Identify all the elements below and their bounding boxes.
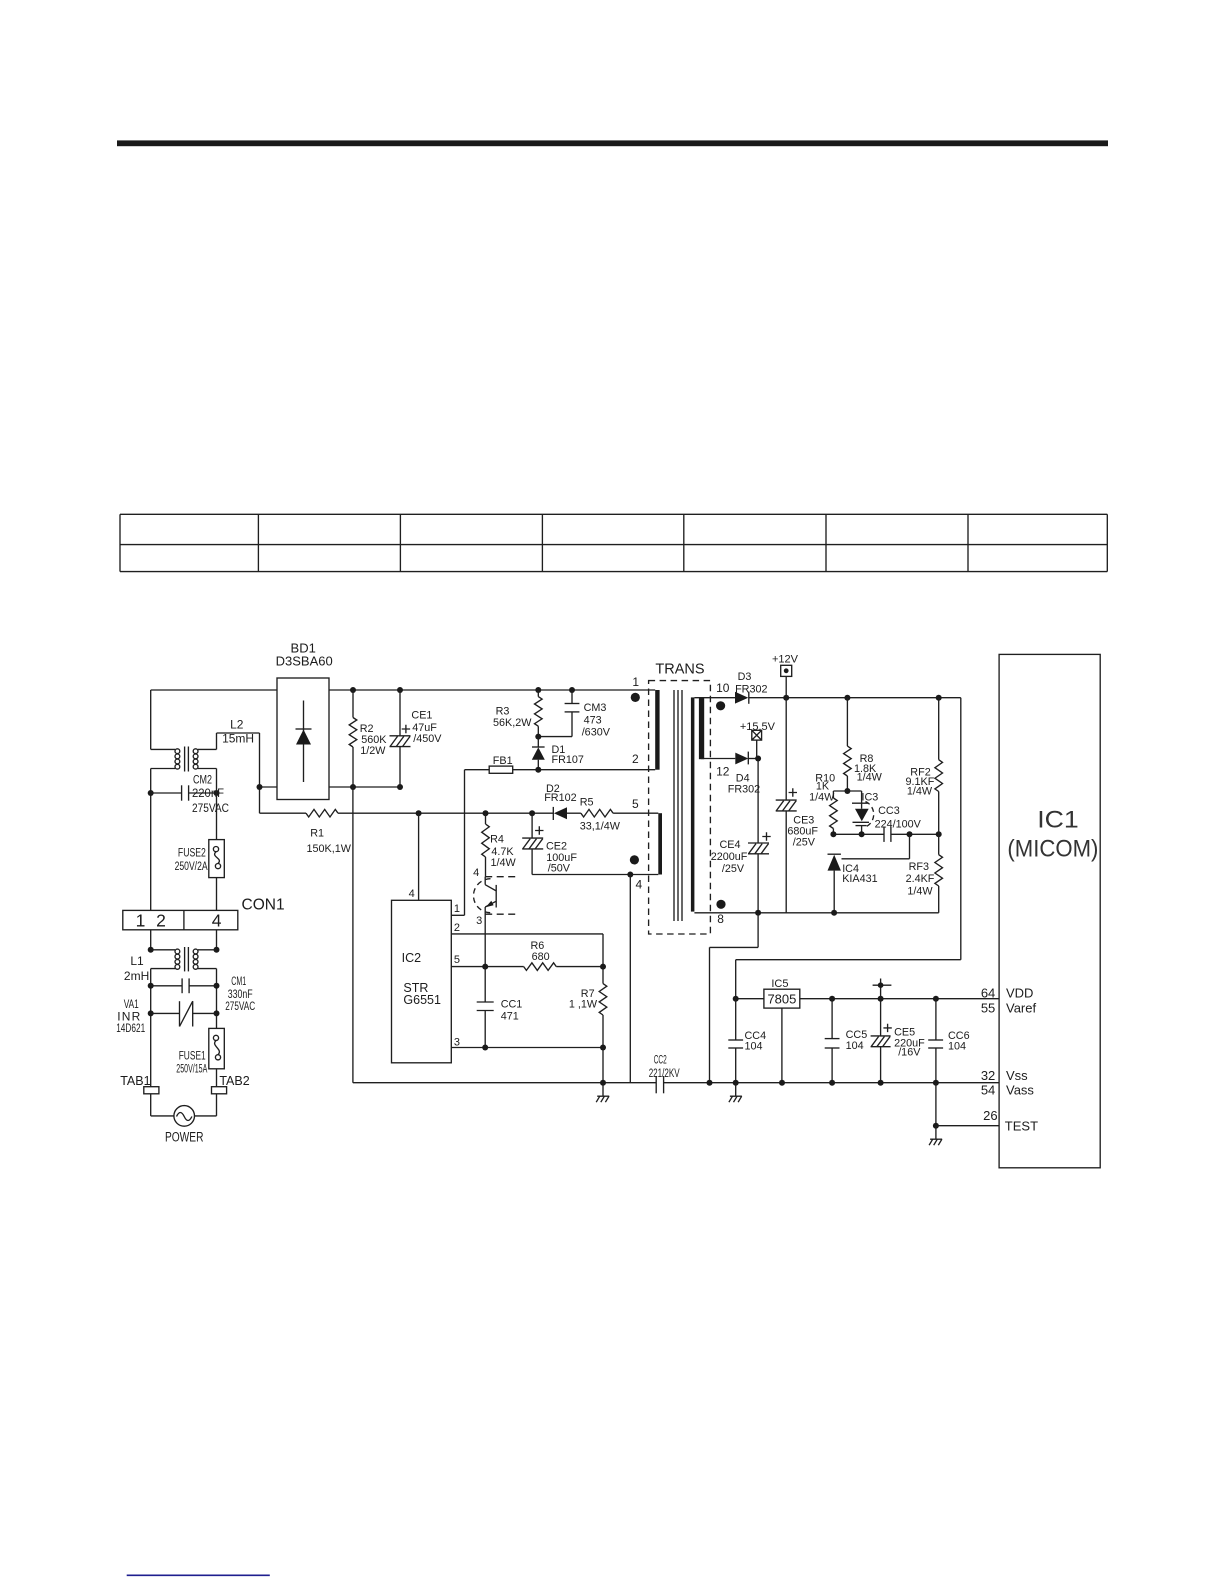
parts table grid [120, 514, 1107, 571]
svg-text:2.4KF: 2.4KF [906, 873, 935, 885]
ground [735, 1083, 737, 1097]
wire: negative rail down to ground bus [352, 787, 354, 1083]
junction [733, 1080, 739, 1086]
svg-text:4: 4 [212, 911, 222, 931]
svg-text:1/4W: 1/4W [857, 771, 883, 783]
junction [397, 687, 403, 693]
op-amp IC2 STR G6551 box [392, 900, 452, 1063]
junction [600, 1045, 606, 1051]
wire: +12V feed down to IC5 [736, 960, 961, 999]
junction [755, 910, 761, 916]
svg-text:1/4W: 1/4W [907, 786, 933, 798]
AC source POWER [174, 1106, 195, 1127]
capacitor CC2 [656, 1076, 663, 1093]
svg-text:4: 4 [409, 888, 415, 900]
wire: pin 12 to D4 [701, 758, 735, 760]
svg-text:250V/15A: 250V/15A [176, 1064, 207, 1076]
svg-text:3: 3 [454, 1037, 460, 1049]
diode D1 [532, 737, 545, 770]
wire: transformer pin 8 line [694, 912, 938, 914]
node +12V terminal [781, 665, 792, 697]
footer blue rule [127, 1574, 270, 1576]
wire: pin4 net down to ground bus [629, 875, 631, 1083]
svg-text:FR107: FR107 [552, 754, 584, 766]
junction [829, 1080, 835, 1086]
svg-text:224/100V: 224/100V [875, 818, 922, 830]
svg-text:Vass: Vass [1006, 1083, 1034, 1098]
shunt regulator IC4 KIA431 [828, 834, 910, 913]
svg-text:RF3: RF3 [909, 861, 929, 873]
svg-text:8: 8 [717, 912, 724, 926]
svg-text:473: 473 [584, 715, 602, 727]
junction [416, 810, 422, 816]
svg-text:560K: 560K [361, 734, 387, 746]
bridge rectifier BD1 [277, 678, 329, 800]
junction [933, 1123, 939, 1129]
svg-text:104: 104 [948, 1041, 966, 1053]
svg-text:/25V: /25V [722, 863, 745, 875]
junction [257, 784, 263, 790]
wire: 5V rail to IC1 VDD [800, 998, 999, 1000]
svg-text:CC1: CC1 [501, 999, 523, 1011]
svg-text:+12V: +12V [772, 653, 799, 665]
junction [933, 996, 939, 1002]
svg-text:TAB2: TAB2 [219, 1074, 249, 1088]
svg-text:1: 1 [632, 675, 639, 689]
capacitor CC6 [928, 999, 943, 1083]
junction [148, 947, 154, 953]
wire: into BD1 left AC terminal [260, 786, 278, 788]
svg-text:1/4W: 1/4W [907, 885, 933, 897]
capacitor CE4 [748, 759, 771, 913]
capacitor CM1 [151, 978, 217, 993]
transformer primary winding 1-2 [655, 690, 659, 770]
svg-text:2mH: 2mH [124, 969, 149, 983]
svg-text:(MICOM): (MICOM) [1007, 836, 1098, 863]
microcontroller IC1 (MICOM) [999, 654, 1100, 1167]
junction [936, 831, 942, 837]
capacitor CE2 [522, 813, 543, 874]
junction [482, 1045, 488, 1051]
junction [755, 756, 761, 762]
svg-text:IC2: IC2 [402, 951, 422, 965]
resistor RF2 [935, 698, 943, 835]
wire: +12V rail [749, 698, 961, 960]
resistor R2 [349, 690, 357, 787]
svg-text:54: 54 [981, 1083, 995, 1098]
ferrite bead FB1 [465, 766, 513, 773]
junction [214, 983, 220, 989]
resistor R4 [482, 813, 490, 877]
capacitor CC3 [884, 827, 939, 842]
svg-text:221/2KV: 221/2KV [649, 1068, 680, 1080]
wire: FUSE1 to TAB2 [216, 1069, 218, 1087]
choke L1 [151, 947, 217, 971]
resistor R8 [844, 698, 852, 791]
svg-text:1: 1 [136, 911, 146, 931]
junction [783, 695, 789, 701]
wire: pin2 line with ferrite bead [513, 769, 656, 771]
svg-text:2: 2 [632, 752, 639, 766]
svg-text:FR302: FR302 [728, 784, 760, 796]
connector CON1 [123, 910, 238, 929]
transformer primary winding 5-4 [658, 813, 662, 874]
svg-text:INR: INR [117, 1010, 140, 1024]
svg-text:FR102: FR102 [544, 792, 576, 804]
svg-text:104: 104 [745, 1041, 763, 1053]
svg-text:CC2: CC2 [654, 1055, 667, 1067]
svg-text:IC5: IC5 [771, 978, 788, 990]
resistor R1 [260, 809, 554, 817]
svg-text:33,1/4W: 33,1/4W [580, 821, 621, 833]
svg-text:G6551: G6551 [403, 993, 441, 1007]
svg-text:7805: 7805 [767, 991, 796, 1006]
svg-text:R5: R5 [580, 796, 594, 808]
junction [933, 1080, 939, 1086]
svg-text:CE1: CE1 [411, 710, 432, 722]
resistor RF3 [935, 834, 943, 913]
svg-text:47uF: 47uF [412, 722, 437, 734]
wire: BD1 - terminal right side [329, 786, 400, 788]
svg-text:1: 1 [454, 903, 460, 915]
junction [535, 687, 541, 693]
fuse FUSE2 [209, 840, 225, 878]
wire: R8 node [833, 790, 861, 792]
svg-text:CM3: CM3 [584, 702, 607, 714]
capacitor CM3 [538, 690, 579, 737]
svg-text:R2: R2 [360, 723, 374, 735]
svg-text:275VAC: 275VAC [192, 803, 229, 815]
capacitor CC5 [825, 999, 840, 1083]
svg-text:471: 471 [501, 1010, 519, 1022]
svg-text:FUSE2: FUSE2 [178, 848, 206, 860]
svg-text:2: 2 [454, 922, 460, 934]
test point above CE5 [873, 979, 892, 999]
diode D2 [553, 807, 581, 820]
header rule bar [117, 140, 1108, 146]
svg-text:POWER: POWER [165, 1130, 204, 1145]
svg-text:/630V: /630V [582, 726, 611, 738]
svg-text:KIA431: KIA431 [842, 873, 877, 885]
svg-text:IC1: IC1 [1037, 807, 1079, 834]
svg-text:CE4: CE4 [719, 839, 740, 851]
wire: L2 right to bridge AC input [217, 733, 260, 813]
junction [844, 695, 850, 701]
svg-text:D3SBA60: D3SBA60 [276, 653, 333, 668]
svg-text:VDD: VDD [1006, 986, 1033, 1001]
svg-text:2: 2 [156, 911, 166, 931]
svg-text:1/4W: 1/4W [809, 792, 835, 804]
junction [350, 687, 356, 693]
junction [878, 1080, 884, 1086]
svg-text:R4: R4 [490, 834, 504, 846]
svg-text:4: 4 [473, 867, 479, 879]
svg-text:FUSE1: FUSE1 [179, 1051, 206, 1063]
capacitor CC1 [477, 967, 494, 1048]
junction [600, 1080, 606, 1086]
svg-text:64: 64 [981, 986, 995, 1001]
junction [350, 784, 356, 790]
transistor Q (IC2 internal) [474, 877, 517, 967]
resistor R3 [535, 690, 543, 737]
wire: CC6 node to TEST pin [935, 1083, 937, 1126]
wire: secondary ground bus [664, 1082, 1000, 1084]
phasing dot pin4 [630, 855, 639, 864]
regulator IC5 7805 [736, 989, 800, 1082]
wire: IC2 pin 4 to R1 rail [418, 813, 420, 900]
wire: primary ground bus [353, 1082, 656, 1084]
svg-text:680: 680 [532, 951, 550, 963]
ground [602, 1083, 604, 1097]
svg-text:TRANS: TRANS [655, 662, 704, 678]
junction [214, 790, 220, 796]
junction [535, 734, 541, 740]
junction [707, 1080, 713, 1086]
wire: left column vertical down to choke L2 [150, 690, 152, 749]
junction [397, 784, 403, 790]
svg-text:CM2: CM2 [193, 775, 212, 787]
wire: pin8 net to secondary ground [710, 913, 759, 1083]
junction [483, 810, 489, 816]
svg-text:CE2: CE2 [546, 841, 567, 853]
svg-text:Varef: Varef [1006, 1001, 1036, 1016]
svg-text:1/4W: 1/4W [490, 857, 516, 869]
svg-text:IC3: IC3 [862, 792, 879, 804]
svg-text:26: 26 [983, 1108, 997, 1123]
wire: BD1 + output rail to transformer pin 1 [329, 689, 655, 691]
svg-text:CC3: CC3 [878, 805, 900, 817]
junction [936, 695, 942, 701]
svg-text:L2: L2 [230, 718, 244, 732]
svg-text:150K,1W: 150K,1W [306, 843, 351, 855]
svg-text:55: 55 [981, 1001, 995, 1016]
wire: pin 10 to D3 [694, 697, 735, 699]
svg-text:56K,2W: 56K,2W [493, 717, 532, 729]
transformer core [674, 690, 682, 921]
svg-text:220nF: 220nF [192, 788, 224, 800]
capacitor CM2 [151, 785, 217, 800]
svg-text:2200uF: 2200uF [711, 851, 748, 863]
wire: CC3 node [833, 833, 884, 835]
svg-text:CM1: CM1 [231, 976, 246, 988]
junction [829, 996, 835, 1002]
svg-text:Vss: Vss [1006, 1068, 1028, 1083]
junction [214, 947, 220, 953]
choke L2 [151, 747, 217, 772]
svg-text:/25V: /25V [793, 836, 816, 848]
junction [859, 831, 865, 837]
svg-text:L1: L1 [130, 954, 144, 968]
resistor R5 [581, 809, 658, 817]
junction [600, 964, 606, 970]
transformer secondary winding 10-8 [691, 697, 695, 911]
svg-text:CON1: CON1 [242, 897, 285, 914]
wire: left column down to CON1 [150, 769, 152, 911]
phasing dot pin1 [631, 693, 640, 702]
wire: FB1 down to IC2 pin 1 [451, 770, 464, 916]
junction [878, 996, 884, 1002]
svg-text:TAB1: TAB1 [120, 1074, 150, 1088]
svg-text:104: 104 [846, 1040, 864, 1052]
resistor R7 [599, 967, 607, 1048]
transformer TRANS dashed outline [649, 681, 711, 934]
junction [844, 788, 850, 794]
svg-text:/450V: /450V [413, 733, 442, 745]
wire: R7 node to ground bus [602, 1048, 604, 1083]
diode D3 [735, 692, 749, 704]
junction [148, 1010, 154, 1016]
svg-text:14D621: 14D621 [116, 1023, 145, 1035]
resistor R6 [524, 963, 603, 971]
svg-text:TEST: TEST [1005, 1119, 1038, 1134]
junction [907, 831, 913, 837]
svg-text:32: 32 [981, 1068, 995, 1083]
junction [830, 831, 836, 837]
junction [482, 964, 488, 970]
resistor R10 [830, 791, 838, 834]
junction [831, 910, 837, 916]
junction [779, 1080, 785, 1086]
junction [148, 983, 154, 989]
svg-text:/50V: /50V [548, 862, 571, 874]
ground [935, 1126, 937, 1140]
capacitor CE5 [871, 999, 892, 1083]
capacitor CC4 [728, 999, 743, 1083]
junction [148, 790, 154, 796]
wire: IC2 pin 3 line [451, 1047, 603, 1049]
terminal TAB1 [144, 1087, 159, 1094]
wire: TABs to POWER source [151, 1094, 217, 1116]
svg-text:5: 5 [632, 797, 639, 811]
svg-text:FB1: FB1 [493, 755, 513, 767]
junction [529, 810, 535, 816]
svg-text:R3: R3 [496, 705, 510, 717]
svg-text:330nF: 330nF [228, 989, 253, 1001]
junction [627, 872, 633, 878]
wire: CE2 to transformer pin 4 [532, 874, 658, 876]
phasing dot pin8 [716, 900, 725, 909]
phasing dot pin10 [716, 701, 725, 710]
junction [733, 996, 739, 1002]
svg-text:250V/2A: 250V/2A [175, 861, 208, 873]
svg-text:1/2W: 1/2W [360, 745, 386, 757]
wire: CON1 to L1 [150, 930, 152, 950]
svg-text:1 ,1W: 1 ,1W [569, 999, 598, 1011]
svg-text:275VAC: 275VAC [225, 1001, 255, 1013]
junction [535, 767, 541, 773]
diode D4 [735, 752, 758, 765]
svg-text:4: 4 [635, 878, 642, 892]
svg-text:/16V: /16V [898, 1046, 921, 1058]
wire: TEST pin [936, 1125, 999, 1127]
svg-text:5: 5 [454, 954, 460, 966]
svg-text:FR302: FR302 [735, 683, 767, 695]
wire: IC2 pin 2 to R6/R7 node [451, 934, 603, 967]
svg-text:+15.5V: +15.5V [740, 721, 776, 733]
svg-text:10: 10 [716, 681, 730, 695]
svg-text:12: 12 [716, 765, 730, 779]
svg-text:R1: R1 [310, 827, 324, 839]
svg-text:D3: D3 [738, 671, 752, 683]
wire: columns between L1 and CM1 [150, 969, 152, 1087]
capacitor CE1 [390, 690, 411, 787]
varistor VA1 [151, 1001, 217, 1026]
wire: right column to fuse FUSE2 [216, 769, 218, 840]
capacitor CE3 [776, 698, 797, 913]
terminal TAB2 [212, 1087, 227, 1094]
wire: FUSE2 to CON1 [216, 878, 218, 911]
junction [214, 1010, 220, 1016]
svg-text:3: 3 [476, 915, 482, 927]
node +15.5V terminal [752, 730, 762, 758]
wire: top rail from left column to bridge BD1 [151, 689, 277, 691]
wire: IC2 pin 5 [451, 966, 523, 968]
junction [569, 687, 575, 693]
transformer secondary winding 10-12 [699, 697, 704, 759]
photodiode IC3 [852, 791, 874, 834]
fuse FUSE1 [209, 1028, 225, 1068]
